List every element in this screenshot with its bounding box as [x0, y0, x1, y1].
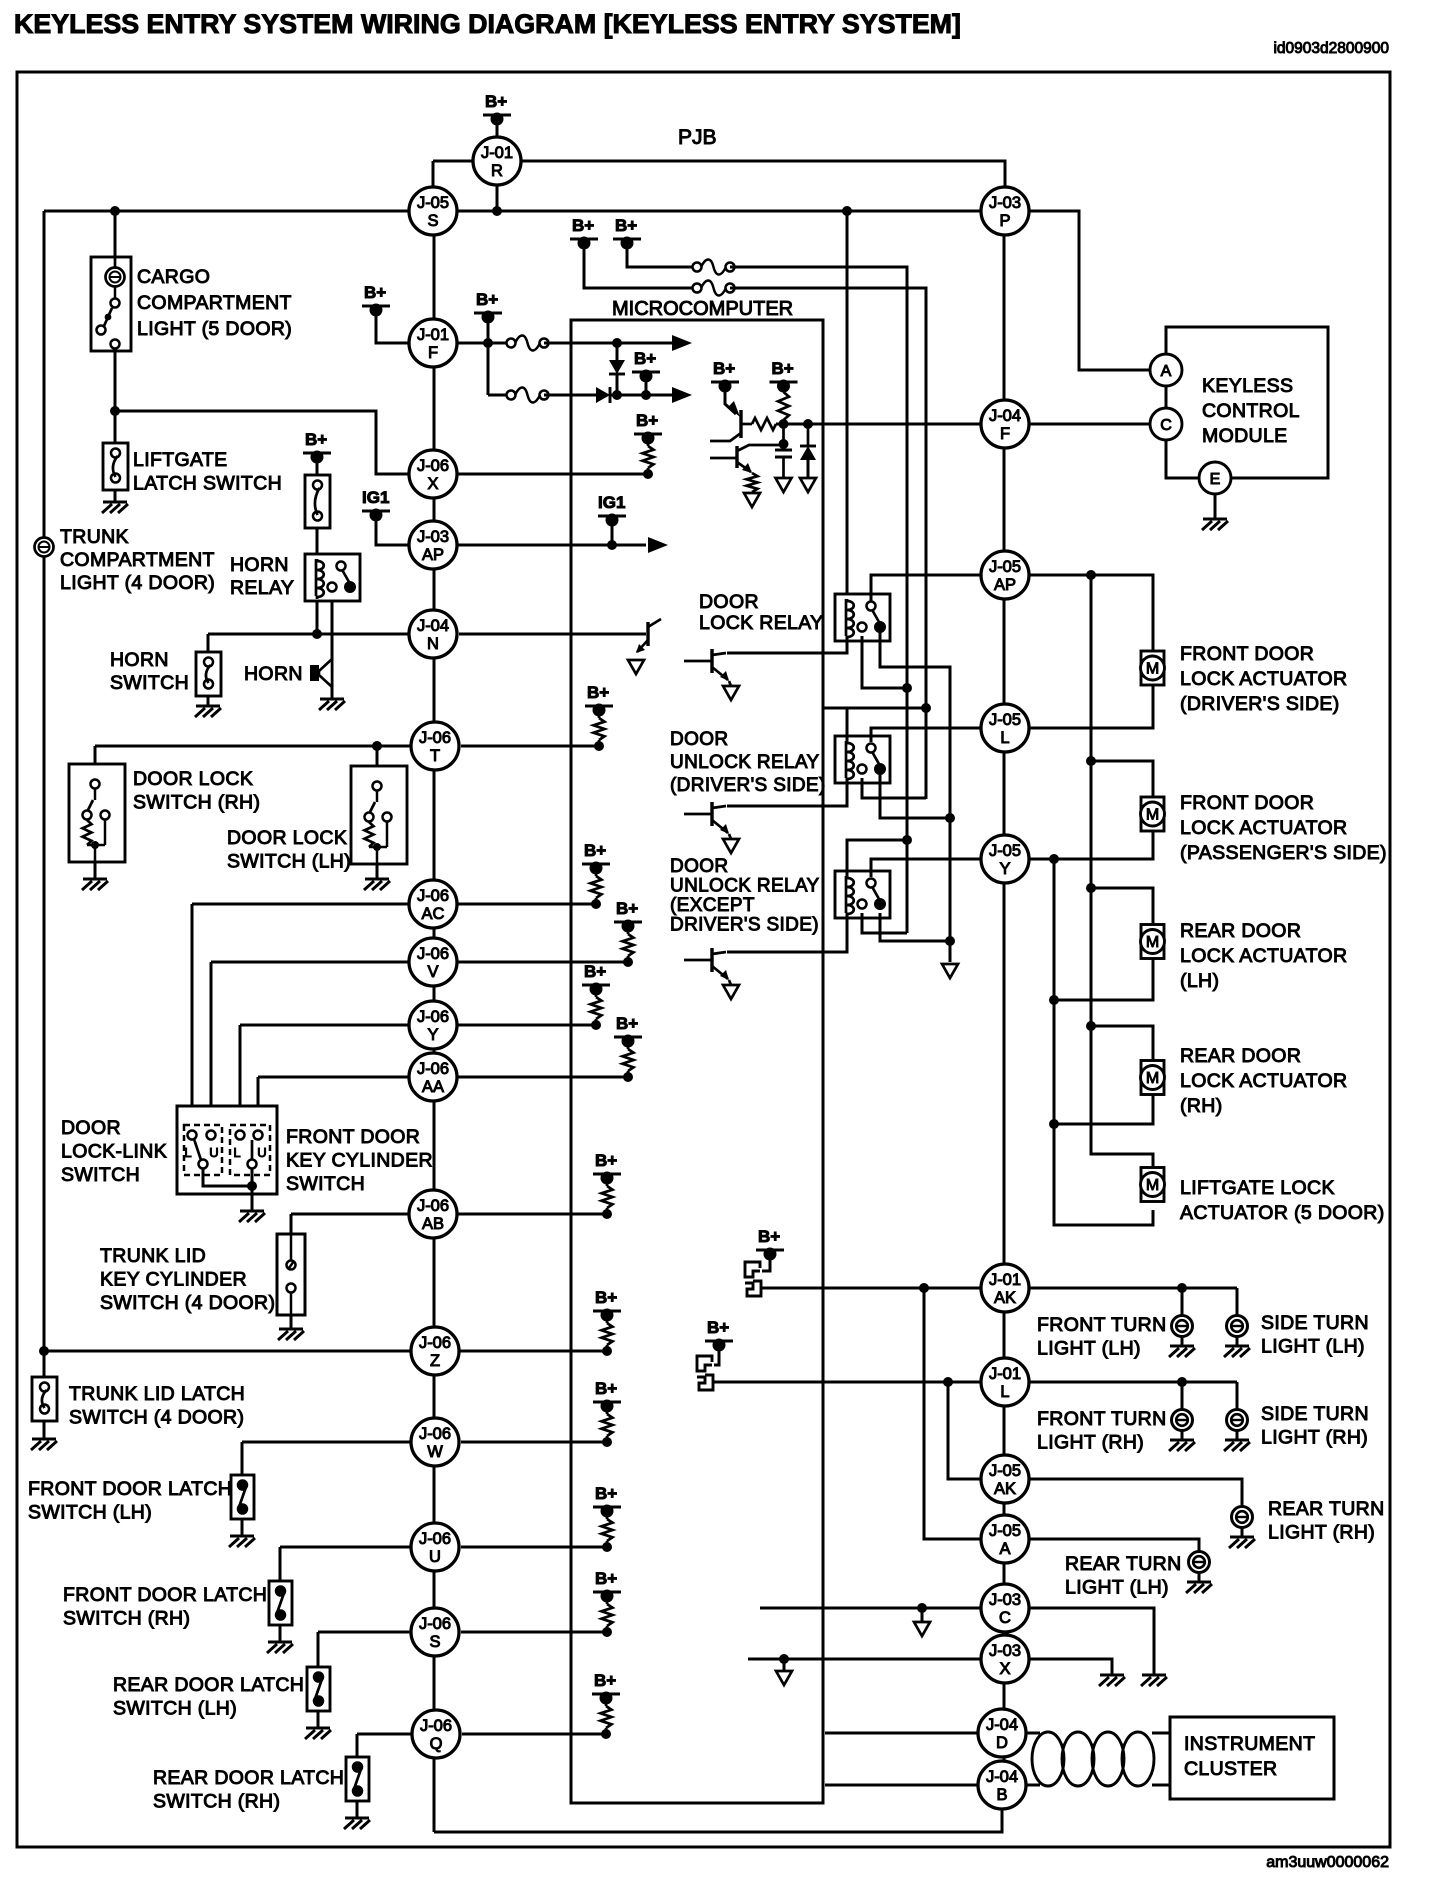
svg-text:J-03: J-03 — [417, 528, 449, 546]
door unlock relay except drivers — [835, 871, 890, 918]
wire node to liftgate latch switch — [114, 411, 117, 443]
svg-text:HORN: HORN — [244, 663, 303, 685]
door lock switch LH contacts — [365, 782, 392, 865]
wire J-06 W drop — [241, 1442, 244, 1475]
svg-text:AA: AA — [422, 1078, 444, 1096]
node J-03 X ground stub — [779, 1654, 789, 1664]
connector J-04 F — [981, 400, 1029, 448]
turn flasher 1 — [745, 1262, 761, 1296]
power B+ row2 — [632, 349, 660, 383]
ground door lock switch RH — [82, 879, 108, 890]
label door lock-link switch — [61, 1117, 167, 1186]
svg-text:J-04: J-04 — [989, 407, 1021, 425]
svg-text:UNLOCK RELAY: UNLOCK RELAY — [670, 876, 820, 897]
connector J-06 U — [411, 1523, 459, 1571]
wire x1091 to M4 — [1091, 1026, 1153, 1059]
wire rear turn LH ground lead — [1198, 1573, 1201, 1582]
wire J-04 B right stub — [1026, 1784, 1040, 1787]
label instrument cluster — [1184, 1733, 1315, 1780]
key cylinder contacts — [233, 1131, 266, 1169]
wire M1 to J-05 L — [1029, 685, 1153, 728]
resistor emitter Q1 — [752, 418, 776, 430]
zener diode — [807, 424, 810, 446]
svg-text:L: L — [233, 1145, 240, 1160]
svg-text:D: D — [996, 1734, 1008, 1752]
power B+ pullup J-04 F row — [770, 359, 798, 393]
svg-text:B+: B+ — [636, 411, 658, 430]
svg-text:B+: B+ — [595, 1569, 617, 1588]
svg-text:X: X — [999, 1660, 1010, 1678]
svg-text:M: M — [1146, 1070, 1159, 1087]
svg-text:DOOR LOCK: DOOR LOCK — [227, 827, 347, 849]
svg-text:SWITCH (4 DOOR): SWITCH (4 DOOR) — [69, 1407, 244, 1429]
wire unlock relay e common — [880, 913, 950, 941]
svg-text:B+: B+ — [572, 216, 594, 235]
svg-text:AP: AP — [994, 576, 1016, 594]
ground rear turn RH — [1229, 1537, 1255, 1548]
wire J-03 C left — [760, 1607, 981, 1610]
label cargo compartment light — [137, 266, 292, 340]
label horn switch — [110, 649, 189, 694]
svg-text:J-06: J-06 — [420, 1717, 452, 1735]
node J-03 C ground stub — [917, 1603, 927, 1613]
wire J-05 AK right — [1029, 1479, 1242, 1506]
svg-text:P: P — [999, 212, 1010, 230]
connector J-05 AP — [981, 551, 1029, 599]
arrow into microcomputer row1 — [672, 335, 692, 351]
svg-text:REAR DOOR: REAR DOOR — [1180, 1045, 1301, 1067]
fuse row2 — [507, 388, 549, 403]
diode zener — [800, 446, 816, 460]
svg-text:HORN: HORN — [230, 554, 289, 576]
svg-text:J-05: J-05 — [989, 1462, 1021, 1480]
ground arrow J-03 C — [914, 1622, 930, 1636]
svg-text:LOCK ACTUATOR: LOCK ACTUATOR — [1180, 668, 1347, 690]
wire J-06 AB right — [457, 1213, 607, 1216]
svg-text:id0903d2800900: id0903d2800900 — [1273, 40, 1389, 57]
wire horn relay contact to horn — [331, 601, 334, 699]
horn switch — [196, 652, 221, 696]
svg-text:V: V — [427, 963, 438, 981]
svg-text:J-06: J-06 — [417, 1197, 449, 1215]
cargo compartment light bulb — [106, 257, 125, 287]
door lock-link / key cylinder switch box — [177, 1106, 277, 1194]
connector J-06 AA — [409, 1053, 457, 1101]
svg-text:B+: B+ — [634, 349, 656, 368]
ground front turn RH — [1169, 1440, 1195, 1451]
ground liftgate latch switch — [102, 502, 128, 513]
svg-text:SIDE TURN: SIDE TURN — [1261, 1403, 1369, 1425]
wire x1091 to M2 — [1091, 761, 1153, 796]
connector J-06 AB — [409, 1190, 457, 1238]
svg-text:REAR DOOR LATCH: REAR DOOR LATCH — [153, 1767, 344, 1789]
node capacitor junction — [779, 419, 789, 429]
svg-text:B+: B+ — [485, 92, 507, 111]
svg-text:B+: B+ — [758, 1227, 780, 1246]
svg-text:B+: B+ — [305, 430, 327, 449]
wire unlock relay d coil bottom — [727, 778, 847, 806]
svg-text:am3uuw0000062: am3uuw0000062 — [1266, 1854, 1389, 1871]
wire J-06 V right — [457, 961, 628, 964]
front turn light RH bulb — [1172, 1410, 1193, 1431]
wire J-03 P to KCM corner — [1029, 211, 1150, 370]
svg-text:LIGHT (LH): LIGHT (LH) — [1065, 1577, 1169, 1599]
wire front latch LH ground — [241, 1519, 244, 1536]
svg-text:SWITCH (4 DOOR): SWITCH (4 DOOR) — [100, 1292, 275, 1314]
rear door latch switch LH — [307, 1667, 330, 1711]
wire unlock relay d NC to fuse bus — [862, 778, 926, 798]
fuse row1 — [507, 336, 549, 351]
node coil top fuse junction — [921, 703, 931, 713]
svg-text:J-01: J-01 — [417, 326, 449, 344]
wire vertical diode link — [616, 343, 619, 360]
svg-text:RELAY: RELAY — [230, 577, 294, 599]
wire switch to horn relay — [316, 528, 319, 554]
wire J-06 AA drop — [257, 1077, 260, 1132]
svg-text:DOOR: DOOR — [61, 1117, 121, 1139]
wire ground stub X — [783, 1659, 786, 1670]
svg-text:LATCH SWITCH: LATCH SWITCH — [133, 473, 282, 495]
wire unlock relay e NC — [862, 913, 907, 933]
wire zener to ground — [807, 460, 810, 477]
ground KCM E — [1202, 519, 1228, 530]
wire front turn LH ground lead — [1181, 1337, 1184, 1346]
wire M2 to J-05 Y — [1029, 831, 1153, 859]
wire J-06 AC right — [457, 903, 596, 906]
node J-06 Z left junction — [39, 1346, 49, 1356]
wire unlock relay e contact to J-05 Y — [871, 859, 981, 877]
svg-text:SWITCH (LH): SWITCH (LH) — [113, 1698, 237, 1720]
wire bottom route to J-04 B — [434, 1810, 1002, 1832]
svg-text:A: A — [999, 1540, 1010, 1558]
liftgate latch switch — [103, 443, 128, 490]
wire B+ to Q1 — [725, 386, 736, 414]
svg-text:J-01: J-01 — [481, 144, 513, 162]
svg-text:C: C — [1160, 417, 1172, 434]
ground side turn RH — [1224, 1440, 1250, 1451]
label trunk lid key cylinder switch — [100, 1245, 275, 1314]
wire B+ left to J-01 F — [376, 310, 408, 343]
wire side turn RH ground lead — [1236, 1431, 1239, 1440]
wire J-06 Y left — [240, 1024, 409, 1027]
connector J-05 L — [981, 704, 1029, 752]
resistor pullup J-06 Y with B+ — [582, 962, 610, 1030]
ground key cylinder switch — [239, 1211, 265, 1222]
svg-text:SWITCH (LH): SWITCH (LH) — [227, 851, 351, 873]
svg-text:DOOR: DOOR — [670, 856, 728, 877]
connector J-06 Y — [409, 1001, 457, 1049]
svg-text:(EXCEPT: (EXCEPT — [670, 895, 755, 916]
svg-text:COMPARTMENT: COMPARTMENT — [60, 549, 215, 571]
svg-text:(LH): (LH) — [1180, 970, 1219, 992]
svg-text:IG1: IG1 — [598, 493, 625, 512]
wire J-06 AA left — [258, 1076, 409, 1079]
connector J-06 W — [411, 1418, 459, 1466]
svg-text:MICROCOMPUTER: MICROCOMPUTER — [612, 298, 793, 320]
svg-text:Q: Q — [430, 1735, 443, 1753]
node x1091 M4 branch — [1086, 1021, 1096, 1031]
svg-text:LOCK ACTUATOR: LOCK ACTUATOR — [1180, 817, 1347, 839]
power IG1 internal — [598, 493, 626, 527]
svg-text:LIGHT (LH): LIGHT (LH) — [1261, 1336, 1365, 1358]
wire door lock relay coil to transistor — [727, 636, 847, 653]
svg-text:FRONT TURN: FRONT TURN — [1037, 1314, 1167, 1336]
power B+ above J-01 R — [483, 92, 511, 126]
node diode bottom — [612, 390, 622, 400]
svg-text:C: C — [999, 1609, 1011, 1627]
wire J-06 Y drop — [239, 1025, 242, 1132]
node out down arrow — [942, 964, 958, 978]
svg-text:U: U — [209, 1145, 218, 1160]
svg-text:KEY CYLINDER: KEY CYLINDER — [286, 1150, 433, 1172]
connector J-06 T — [411, 722, 459, 770]
svg-text:AK: AK — [994, 1480, 1016, 1498]
svg-text:E: E — [1210, 471, 1221, 488]
rear door lock actuator motor RH — [1141, 1061, 1165, 1095]
wire to side turn RH — [1236, 1382, 1239, 1409]
wire J-06 V left — [211, 961, 409, 964]
svg-text:(PASSENGER'S SIDE): (PASSENGER'S SIDE) — [1180, 842, 1387, 864]
ground front door latch LH — [229, 1536, 255, 1547]
power B+ fuse row B — [613, 216, 641, 250]
label door lock switch RH — [133, 768, 260, 814]
rear turn light LH bulb — [1189, 1552, 1210, 1573]
wire J-06 Z row — [44, 1350, 607, 1353]
resistor pullup J-06 T with B+ — [585, 683, 613, 751]
wire B+ drop to J-01 F row — [487, 319, 490, 343]
node liftgate branch — [110, 406, 120, 416]
svg-text:M: M — [1146, 661, 1159, 678]
svg-text:J-05: J-05 — [989, 1522, 1021, 1540]
front turn light LH bulb — [1172, 1316, 1193, 1337]
connector J-01 R — [473, 137, 521, 185]
wire fuse to diode row2 — [544, 394, 596, 397]
svg-text:TRUNK: TRUNK — [60, 526, 129, 548]
svg-text:J-06: J-06 — [419, 1425, 451, 1443]
svg-text:LIGHT (LH): LIGHT (LH) — [1037, 1338, 1141, 1360]
wire J-05 S riser — [432, 161, 435, 211]
svg-text:B+: B+ — [595, 1288, 617, 1307]
node junction relay feed x847 — [842, 206, 852, 216]
svg-text:J-05: J-05 — [417, 194, 449, 212]
svg-text:HORN: HORN — [110, 649, 169, 671]
resistor pullup J-06 X with B+ — [634, 411, 662, 479]
label front door key cylinder switch — [286, 1126, 433, 1195]
wire rear latch RH ground — [356, 1801, 359, 1818]
svg-text:B+: B+ — [595, 1484, 617, 1503]
svg-text:N: N — [427, 635, 439, 653]
wire horn switch to ground — [207, 696, 210, 706]
svg-text:MODULE: MODULE — [1202, 425, 1288, 447]
ground door lock switch LH — [364, 879, 390, 890]
power B+ horn relay — [303, 430, 331, 464]
resistor pullup J-06 AB with B+ — [593, 1151, 621, 1219]
svg-text:TRUNK LID LATCH: TRUNK LID LATCH — [69, 1383, 245, 1405]
wire branch down to row2 — [487, 343, 490, 395]
wire J-06 AC drop — [191, 904, 194, 1132]
connector J-01 AK — [981, 1264, 1029, 1312]
svg-text:CONTROL: CONTROL — [1202, 400, 1300, 422]
ground side turn LH — [1224, 1346, 1250, 1357]
node J-05 AK branch — [943, 1377, 953, 1387]
svg-text:B+: B+ — [364, 283, 386, 302]
node Q2 base junction — [779, 439, 789, 449]
wire unlock relay e coil top — [847, 840, 907, 877]
wire diode to arrow row2 — [610, 394, 672, 397]
svg-text:REAR TURN: REAR TURN — [1065, 1553, 1182, 1575]
svg-text:AB: AB — [422, 1215, 444, 1233]
wire ground stub C — [921, 1608, 924, 1621]
resistor pullup J-06 Q with B+ — [592, 1671, 620, 1739]
transistor J-04 N — [636, 619, 661, 653]
wire horn relay coil to J-04 N bus — [316, 601, 319, 634]
resistor pullup J-06 V with B+ — [614, 899, 642, 967]
svg-text:J-06: J-06 — [417, 1060, 449, 1078]
svg-text:J-05: J-05 — [989, 842, 1021, 860]
svg-text:SIDE TURN: SIDE TURN — [1261, 1312, 1369, 1334]
svg-text:B+: B+ — [595, 1151, 617, 1170]
svg-text:B+: B+ — [713, 359, 735, 378]
connector J-05 AK — [981, 1455, 1029, 1503]
svg-text:J-01: J-01 — [989, 1271, 1021, 1289]
wire J-06 S right — [461, 1631, 607, 1634]
wire unlock relay d common — [880, 774, 950, 818]
wire J-04 B left — [825, 1784, 978, 1787]
svg-text:AC: AC — [422, 905, 445, 923]
label door unlock relay except — [670, 856, 820, 936]
label rear door latch switch RH — [153, 1767, 344, 1813]
wire J-06 AB left — [291, 1213, 409, 1216]
wire B+ to J-01 R — [496, 121, 499, 137]
svg-text:B+: B+ — [595, 1379, 617, 1398]
wire J-05 A right — [1029, 1539, 1199, 1551]
svg-text:J-04: J-04 — [986, 1768, 1018, 1786]
label liftgate lock actuator — [1180, 1177, 1385, 1224]
svg-text:U: U — [257, 1145, 266, 1160]
power B+ fuse row A — [570, 216, 598, 250]
connector J-03 AP — [409, 521, 457, 569]
wire main PJB bus y211 — [44, 210, 981, 213]
wire J-06 U right — [461, 1546, 607, 1549]
ground zener — [800, 478, 816, 492]
label rear turn light RH — [1268, 1498, 1385, 1544]
svg-text:J-05: J-05 — [989, 558, 1021, 576]
wire side turn LH ground lead — [1236, 1337, 1239, 1346]
svg-text:FRONT DOOR LATCH: FRONT DOOR LATCH — [63, 1584, 267, 1606]
wire J-04 N right — [459, 633, 646, 636]
wire J-06 W right — [461, 1441, 607, 1444]
svg-text:B+: B+ — [707, 1318, 729, 1337]
connector J-01 L — [981, 1358, 1029, 1406]
wire bus x1091 — [1091, 575, 1153, 1166]
connector J-04 B — [978, 1761, 1026, 1809]
connector J-06 V — [409, 938, 457, 986]
wire B+ row2 drop — [645, 376, 648, 395]
svg-text:CARGO: CARGO — [137, 266, 210, 288]
label trunk compartment light — [60, 526, 215, 594]
svg-text:TRUNK LID: TRUNK LID — [100, 1245, 206, 1267]
wire front turn RH ground lead — [1181, 1431, 1184, 1440]
wire J-06 Q drop — [356, 1734, 359, 1757]
svg-text:J-06: J-06 — [417, 1008, 449, 1026]
wire to front turn LH — [1181, 1288, 1184, 1315]
svg-text:J-03: J-03 — [989, 1642, 1021, 1660]
svg-text:INSTRUMENT: INSTRUMENT — [1184, 1733, 1315, 1755]
wire J-06 AB drop — [290, 1214, 293, 1234]
svg-text:B+: B+ — [476, 290, 498, 309]
svg-text:LOCK ACTUATOR: LOCK ACTUATOR — [1180, 1070, 1347, 1092]
lock-link contacts — [184, 1131, 218, 1169]
wire bus x1054 — [1054, 859, 1153, 1225]
node x1054 M3 junction — [1049, 995, 1059, 1005]
keyless control module box — [1166, 327, 1328, 478]
ground Q2 emitter — [744, 493, 760, 507]
wire trunk key cyl ground — [290, 1315, 293, 1329]
turn flasher 2 — [697, 1356, 713, 1390]
ground J-03 X — [1099, 1675, 1125, 1686]
connector J-01 F — [409, 319, 457, 367]
svg-text:REAR DOOR: REAR DOOR — [1180, 920, 1301, 942]
wire flasher1 to J-01 AK — [760, 1287, 981, 1290]
wire J-06 S drop — [317, 1632, 320, 1667]
wire trunk lid latch drop — [43, 1351, 46, 1377]
connector J-03 X — [981, 1635, 1029, 1683]
node J-01 F branch — [483, 338, 493, 348]
resistor pullup J-06 W with B+ — [593, 1379, 621, 1447]
svg-text:B+: B+ — [772, 359, 794, 378]
svg-text:(RH): (RH) — [1180, 1095, 1223, 1117]
wire J-03 AP right — [458, 544, 646, 547]
label door unlock relay drivers — [670, 729, 826, 796]
wire J-05 AP to M1 — [1029, 575, 1153, 650]
wire door lock relay common out — [880, 632, 950, 962]
ground transistor J-04 N — [628, 660, 644, 674]
svg-text:LIGHT (RH): LIGHT (RH) — [1037, 1432, 1144, 1454]
rear door latch switch RH — [346, 1757, 369, 1801]
rear door lock actuator motor LH — [1141, 925, 1165, 959]
transistor unlock relay drivers — [684, 802, 739, 853]
node J-05 A branch — [919, 1283, 929, 1293]
wire fuse B to x907 bus — [730, 267, 907, 933]
svg-text:F: F — [1000, 425, 1010, 443]
svg-text:SWITCH: SWITCH — [286, 1173, 365, 1195]
ground rear turn LH — [1186, 1582, 1212, 1593]
wire key cyl lower to join — [251, 1168, 254, 1210]
wire J-03 C right — [1029, 1608, 1154, 1675]
label rear turn light LH — [1065, 1553, 1182, 1599]
ground horn — [319, 699, 345, 710]
wire J-01 R left to J-05 S — [433, 160, 472, 163]
svg-text:M: M — [1146, 934, 1159, 951]
power B+ flasher 2 — [705, 1318, 733, 1352]
label front door latch switch LH — [28, 1478, 232, 1524]
svg-text:J-03: J-03 — [989, 194, 1021, 212]
node B+ row2 junction — [641, 390, 651, 400]
svg-text:J-06: J-06 — [419, 1615, 451, 1633]
wire row2 start — [488, 394, 511, 397]
svg-text:KEYLESS ENTRY SYSTEM WIRING DI: KEYLESS ENTRY SYSTEM WIRING DIAGRAM [KEY… — [14, 9, 961, 39]
label front turn light LH — [1037, 1314, 1167, 1360]
front door lock actuator motor drivers — [1141, 651, 1165, 685]
rear turn light RH bulb — [1232, 1507, 1253, 1528]
connector J-06 X — [409, 450, 457, 498]
resistor pullup J-06 S with B+ — [593, 1569, 621, 1637]
wire PJB column 2 spine — [1003, 236, 1006, 1809]
svg-text:ACTUATOR (5 DOOR): ACTUATOR (5 DOOR) — [1180, 1202, 1385, 1224]
svg-text:REAR DOOR LATCH: REAR DOOR LATCH — [113, 1674, 304, 1696]
svg-text:DRIVER'S SIDE): DRIVER'S SIDE) — [670, 915, 819, 936]
connector J-05 A — [981, 1515, 1029, 1563]
